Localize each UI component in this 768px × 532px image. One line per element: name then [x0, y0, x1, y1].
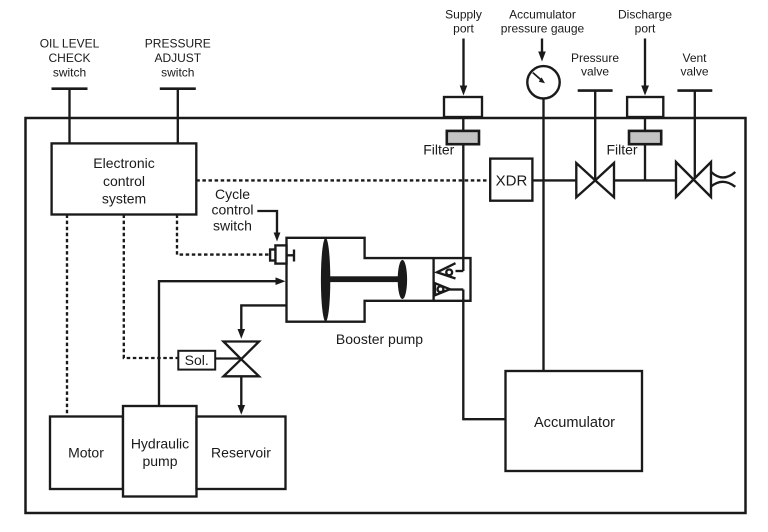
- cycle control switch plunger: [270, 250, 275, 261]
- svg-text:pressure gauge: pressure gauge: [501, 22, 585, 36]
- cycle control switch body: [275, 245, 286, 263]
- svg-text:Filter: Filter: [423, 142, 454, 158]
- label Accumulator pressure gauge: [501, 8, 585, 36]
- svg-text:Cycle: Cycle: [215, 186, 250, 202]
- label PRESSURE ADJUST switch: [145, 36, 211, 79]
- svg-text:pump: pump: [142, 453, 177, 469]
- accumulator box: [506, 371, 643, 471]
- svg-text:ADJUST: ADJUST: [154, 51, 201, 65]
- svg-text:CHECK: CHECK: [48, 51, 90, 65]
- XDR box: [490, 159, 532, 201]
- reservoir box: [197, 417, 286, 490]
- label Supply port: [445, 8, 482, 36]
- svg-text:Pressure: Pressure: [571, 51, 619, 65]
- svg-text:Booster pump: Booster pump: [336, 331, 423, 347]
- wire oil level switch to control box: [68, 89, 70, 144]
- wire pressure valve to vent valve: [614, 179, 676, 181]
- svg-text:XDR: XDR: [496, 172, 528, 189]
- label Vent valve: [680, 51, 708, 79]
- svg-text:OIL LEVEL: OIL LEVEL: [40, 36, 100, 50]
- gauge line to accumulator: [542, 99, 544, 372]
- booster pump large piston: [321, 238, 330, 322]
- hydraulic pump box: [123, 406, 197, 497]
- motor box: [50, 417, 123, 490]
- svg-text:port: port: [453, 22, 474, 36]
- wire pressure adjust switch to control box: [177, 89, 179, 144]
- cycle control switch contact: [287, 254, 295, 256]
- svg-text:switch: switch: [53, 65, 86, 79]
- wire XDR to pressure valve: [532, 179, 576, 181]
- svg-text:Reservoir: Reservoir: [211, 445, 271, 461]
- svg-text:switch: switch: [161, 65, 194, 79]
- label Pressure valve: [571, 51, 619, 79]
- svg-text:control: control: [211, 202, 253, 218]
- dashed wire control box to solenoid: [124, 215, 179, 359]
- pump feed line: [159, 281, 278, 406]
- gauge leader arrow: [541, 39, 543, 55]
- svg-text:valve: valve: [680, 65, 708, 79]
- svg-text:Discharge: Discharge: [618, 8, 672, 22]
- dashed wire control box to cycle switch: [177, 215, 270, 255]
- svg-text:system: system: [102, 190, 146, 206]
- drain line to reservoir: [240, 376, 242, 407]
- discharge line down: [644, 117, 646, 180]
- booster pump small piston: [398, 260, 407, 299]
- supply filter: [447, 131, 479, 144]
- svg-text:valve: valve: [581, 65, 609, 79]
- dashed wire control box to motor: [66, 215, 68, 417]
- supply line down: [462, 117, 464, 271]
- svg-text:switch: switch: [213, 218, 252, 234]
- discharge filter: [629, 131, 661, 144]
- pressure adjust switch terminal bar: [160, 87, 196, 90]
- svg-text:Electronic: Electronic: [93, 155, 154, 171]
- electronic control system box: [52, 143, 197, 214]
- oil level switch terminal bar: [52, 87, 88, 90]
- discharge port fitting: [627, 97, 663, 117]
- wire solenoid to drain valve: [215, 357, 241, 359]
- svg-text:Motor: Motor: [68, 445, 104, 461]
- dashed wire control box to XDR: [196, 179, 490, 181]
- svg-text:port: port: [635, 22, 656, 36]
- vent valve body: [676, 162, 711, 197]
- vent valve stem: [694, 91, 696, 180]
- svg-text:Accumulator: Accumulator: [509, 8, 576, 22]
- discharge port arrow: [644, 39, 646, 88]
- svg-text:Vent: Vent: [682, 51, 707, 65]
- supply port fitting: [444, 97, 482, 117]
- svg-text:Hydraulic: Hydraulic: [131, 435, 189, 451]
- discharge check valve: [435, 283, 450, 295]
- pressure valve body: [576, 163, 614, 197]
- svg-text:Accumulator: Accumulator: [534, 415, 615, 431]
- gauge needle: [533, 73, 541, 80]
- pressure valve stem bar: [578, 89, 613, 92]
- svg-text:Sol.: Sol.: [185, 352, 209, 368]
- drain valve: [224, 342, 260, 360]
- main enclosure border: [26, 118, 746, 513]
- leader arrow to cycle switch: [257, 211, 277, 235]
- pressure valve stem: [594, 91, 596, 181]
- solenoid box: [178, 351, 215, 370]
- booster pump drain line: [241, 305, 286, 331]
- svg-text:PRESSURE: PRESSURE: [145, 36, 211, 50]
- suction check valve: [437, 263, 456, 278]
- supply line to accumulator: [463, 290, 505, 420]
- label OIL LEVEL CHECK switch: [40, 36, 100, 79]
- svg-text:Filter: Filter: [606, 142, 637, 158]
- label Cycle control switch: [211, 186, 253, 234]
- booster pump body: [287, 238, 471, 322]
- supply port arrow: [462, 39, 464, 88]
- label Discharge port: [618, 8, 672, 36]
- svg-text:Supply: Supply: [445, 8, 482, 22]
- vent outlet squiggle: [711, 172, 735, 178]
- pressure gauge: [527, 66, 559, 98]
- vent valve stem bar: [677, 89, 712, 92]
- booster pump check valve box divider: [432, 258, 434, 301]
- booster pump piston rod: [326, 276, 403, 282]
- svg-text:control: control: [103, 173, 145, 189]
